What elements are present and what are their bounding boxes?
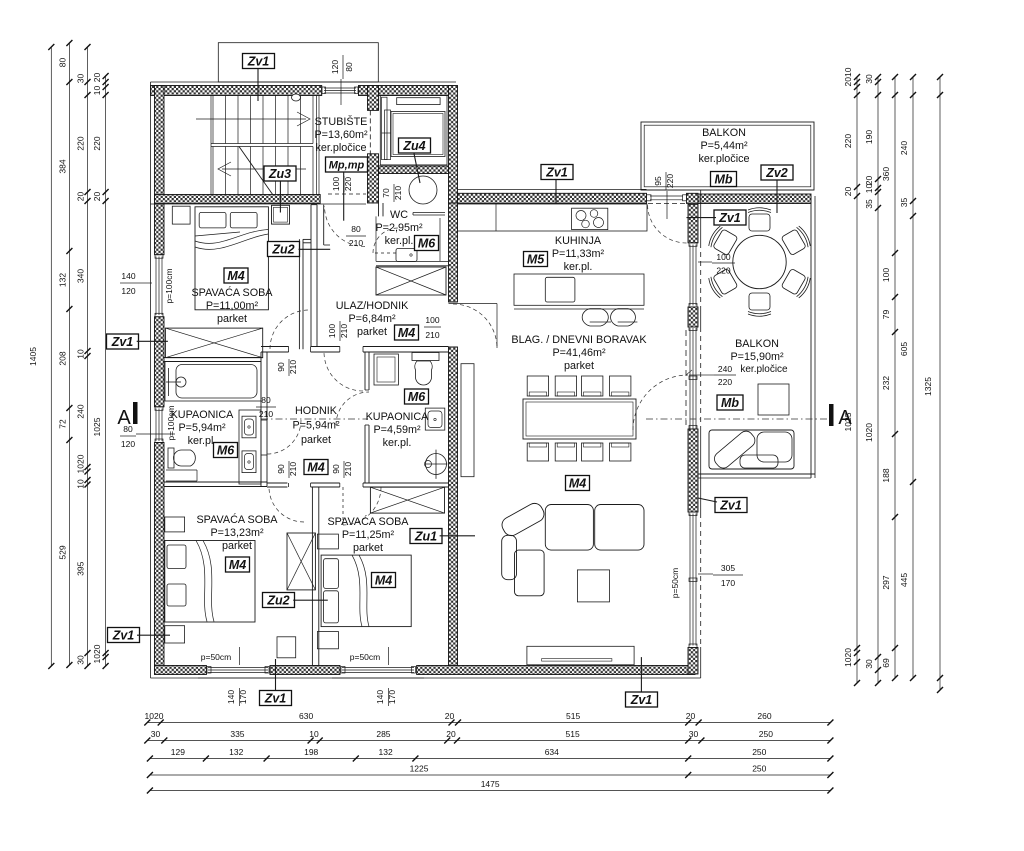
svg-text:P=15,90m²: P=15,90m² — [730, 351, 784, 363]
elevator bottom wall hatch — [379, 166, 449, 174]
door Zu2 bedroom1 swing arc — [325, 206, 366, 247]
label Zu4 — [399, 138, 431, 153]
svg-text:210: 210 — [425, 330, 439, 340]
svg-text:HODNIK: HODNIK — [295, 405, 338, 417]
svg-text:M4: M4 — [227, 269, 244, 283]
svg-text:10: 10 — [864, 184, 874, 194]
left wall hatch segment 1 — [155, 86, 165, 255]
blanket bedroom3 — [352, 555, 362, 626]
label M4 bedroom3 — [372, 573, 396, 588]
svg-text:Zv1: Zv1 — [545, 166, 568, 180]
svg-text:100: 100 — [425, 315, 439, 325]
label M4 bedroom2 — [226, 557, 250, 572]
balcony right outline — [810, 196, 812, 478]
WC bottom boundary — [376, 260, 449, 262]
svg-text:220: 220 — [76, 136, 86, 150]
svg-text:30: 30 — [689, 729, 699, 739]
balcony top-right outline — [641, 122, 814, 190]
svg-text:220: 220 — [843, 134, 853, 148]
svg-text:132: 132 — [57, 273, 67, 287]
nightstand bedroom2 bottom — [165, 626, 185, 643]
svg-text:90: 90 — [276, 362, 286, 372]
right wall hatch seg4 bottom corner — [688, 648, 698, 675]
label Mp,mp — [326, 157, 368, 172]
svg-text:M4: M4 — [569, 477, 586, 491]
svg-text:80: 80 — [261, 395, 271, 405]
label Zv1 balcony right — [715, 498, 747, 513]
svg-text:20: 20 — [686, 711, 696, 721]
hall wardrobe M4 crossed — [376, 267, 446, 295]
WC sink — [396, 249, 417, 262]
bedroom1 closet wall — [298, 239, 300, 349]
hodnik bottom wall — [267, 482, 287, 484]
toilet bathroom1 — [168, 448, 174, 468]
bathroom1 step/shelf — [166, 469, 197, 471]
dining chairs bottom row — [527, 443, 548, 461]
svg-text:Zu4: Zu4 — [402, 139, 425, 153]
sofa seat 2 — [595, 505, 644, 551]
svg-text:340: 340 — [76, 269, 86, 283]
WC inner boundary — [375, 216, 377, 261]
stair diagonal break line — [239, 147, 273, 196]
svg-text:120: 120 — [121, 286, 135, 296]
svg-text:20: 20 — [92, 73, 102, 83]
central vertical wall upper (kitchen left) — [449, 203, 458, 302]
svg-text:20: 20 — [76, 192, 86, 202]
svg-text:STUBIŠTE: STUBIŠTE — [315, 115, 368, 128]
label Zu1 bedroom3 — [410, 529, 442, 544]
svg-text:parket: parket — [357, 326, 387, 338]
hall/hodnik wall horizontal — [261, 346, 289, 348]
svg-text:170: 170 — [238, 690, 248, 704]
svg-text:1020: 1020 — [92, 644, 102, 663]
left wall window bedroom1 p=100 — [155, 254, 165, 256]
balcony sofa seat — [709, 430, 794, 469]
bottom wall outer face line — [151, 677, 701, 679]
stair arrow lower flight — [222, 168, 306, 170]
svg-text:KUPAONICA: KUPAONICA — [171, 409, 235, 421]
svg-text:20: 20 — [92, 192, 102, 202]
bed bedroom3 — [321, 555, 411, 627]
svg-text:P=5,94m²: P=5,94m² — [178, 422, 226, 434]
svg-text:30: 30 — [76, 74, 86, 84]
sideboard on wall — [461, 364, 474, 477]
svg-text:1020: 1020 — [145, 711, 164, 721]
svg-text:140: 140 — [226, 690, 236, 704]
svg-text:Zu2: Zu2 — [266, 594, 289, 608]
svg-text:ker.pl.: ker.pl. — [188, 435, 217, 447]
right wall hatch seg3 — [688, 429, 698, 512]
svg-text:220: 220 — [718, 377, 732, 387]
label Zv1 left lower — [108, 628, 140, 643]
stair mid landing double line — [211, 143, 313, 145]
washbasin 2 — [242, 451, 256, 473]
wall between stair block and WC/elevator column — [368, 86, 379, 111]
svg-text:210: 210 — [343, 462, 353, 476]
svg-text:250: 250 — [759, 729, 773, 739]
dim row 2 bottom — [147, 740, 830, 742]
svg-text:80: 80 — [351, 224, 361, 234]
sofa seat 1 — [545, 505, 593, 551]
stair risers upper flight — [212, 96, 214, 144]
svg-text:ker.pločice: ker.pločice — [740, 364, 788, 375]
bathroom1 bottom wall — [164, 481, 267, 483]
label Zv2 balcony — [761, 165, 793, 180]
svg-text:P=41,46m²: P=41,46m² — [552, 347, 606, 359]
svg-text:Zv1: Zv1 — [264, 692, 287, 706]
elevator door rails — [382, 97, 388, 159]
svg-text:P=13,23m²: P=13,23m² — [210, 527, 264, 539]
balcony door swing living — [633, 375, 688, 430]
svg-text:220: 220 — [92, 136, 102, 150]
svg-text:2010: 2010 — [843, 67, 853, 86]
svg-text:SPAVAĆA SOBA: SPAVAĆA SOBA — [191, 286, 273, 299]
svg-text:ker.pločice: ker.pločice — [698, 153, 749, 165]
svg-text:P=6,84m²: P=6,84m² — [348, 313, 396, 325]
svg-text:1020: 1020 — [76, 454, 86, 473]
svg-text:SPAVAĆA SOBA: SPAVAĆA SOBA — [327, 515, 409, 528]
label M6 bathroom2 — [405, 389, 429, 404]
svg-text:1475: 1475 — [481, 779, 500, 789]
svg-text:WC: WC — [390, 209, 408, 221]
label Zu2 bedroom2 — [263, 593, 295, 608]
kitchen island — [514, 274, 644, 305]
svg-text:Zv1: Zv1 — [111, 335, 134, 349]
svg-text:35: 35 — [864, 199, 874, 209]
opening to living room door swing — [453, 304, 497, 348]
svg-text:1225: 1225 — [410, 764, 429, 774]
svg-text:188: 188 — [881, 468, 891, 482]
balcony-right top wall hatch — [698, 194, 811, 204]
label Zu2 bedroom1 — [268, 242, 300, 257]
balcony door swing arc kitchen — [648, 204, 687, 243]
svg-text:parket: parket — [222, 540, 252, 552]
section mark A right — [829, 404, 834, 426]
cooktop — [572, 208, 608, 229]
dim col right 5 — [939, 77, 941, 690]
svg-text:140: 140 — [121, 271, 135, 281]
nightstand bedroom3 bottom — [317, 632, 338, 649]
label M4 living — [566, 476, 590, 491]
island sink — [545, 277, 575, 302]
wardrobe between bedrooms crossed — [287, 533, 315, 590]
dim col left 3 — [87, 47, 89, 666]
svg-text:KUHINJA: KUHINJA — [555, 235, 602, 247]
svg-text:p=50cm: p=50cm — [201, 652, 231, 662]
svg-text:P=11,00m²: P=11,00m² — [206, 300, 259, 312]
svg-text:Zv2: Zv2 — [765, 166, 788, 180]
door hodnik top-left swing — [324, 352, 363, 391]
svg-text:80: 80 — [123, 424, 133, 434]
svg-text:1325: 1325 — [923, 377, 933, 396]
svg-text:210: 210 — [339, 324, 349, 338]
bathtub — [165, 362, 261, 402]
pillows bedroom2 — [167, 545, 186, 569]
svg-text:250: 250 — [752, 764, 766, 774]
label M4 bedroom1 — [224, 268, 248, 283]
svg-text:120: 120 — [121, 439, 135, 449]
bathroom2 sink — [425, 408, 445, 430]
svg-text:p=50cm: p=50cm — [670, 568, 680, 598]
bottom wall hatch between windows — [270, 666, 340, 675]
balcony square table — [758, 384, 789, 415]
svg-text:100: 100 — [881, 268, 891, 282]
svg-text:35: 35 — [899, 198, 909, 208]
bedroom1 door swing from hodnik — [270, 310, 309, 349]
svg-text:210: 210 — [259, 409, 273, 419]
svg-text:529: 529 — [57, 545, 67, 559]
svg-text:515: 515 — [566, 729, 580, 739]
right wall window 305/170 p=50 — [689, 514, 691, 646]
svg-text:parket: parket — [564, 360, 594, 372]
svg-text:M4: M4 — [307, 461, 324, 475]
svg-text:BLAG. / DNEVNI BORAVAK: BLAG. / DNEVNI BORAVAK — [511, 334, 647, 346]
svg-text:190: 190 — [864, 130, 874, 144]
bathroom2 left wall — [364, 352, 366, 390]
bedroom2/bedroom3 divider wall — [311, 487, 313, 666]
bottom window bedroom3 p=50 — [339, 666, 341, 675]
label M5 kitchen — [524, 252, 548, 267]
label Zv1 kitchen — [541, 165, 573, 180]
door to bedroom3 swing — [343, 487, 381, 525]
svg-text:80: 80 — [57, 58, 67, 68]
svg-text:Zu3: Zu3 — [268, 167, 291, 181]
svg-text:P=2,95m²: P=2,95m² — [375, 222, 423, 234]
entry door Zu3 leaf parked — [272, 205, 290, 224]
svg-text:384: 384 — [57, 159, 67, 173]
elevator door opening dashed — [369, 110, 371, 153]
svg-text:parket: parket — [301, 434, 331, 446]
left wall hatch segment 2 — [155, 317, 165, 407]
svg-text:30: 30 — [76, 655, 86, 665]
wardrobe bedroom3 crossed — [370, 487, 444, 513]
TV cabinet — [527, 646, 634, 665]
svg-text:Zu2: Zu2 — [271, 243, 294, 257]
svg-text:ker.pl.: ker.pl. — [564, 261, 593, 273]
dim col right 4 — [912, 77, 914, 678]
svg-text:100: 100 — [331, 177, 341, 191]
svg-text:170: 170 — [387, 690, 397, 704]
label Zv1 right wall window — [714, 210, 746, 225]
round dining table balcony — [733, 235, 786, 288]
svg-text:305: 305 — [721, 563, 735, 573]
svg-text:Zv1: Zv1 — [630, 693, 653, 707]
svg-text:210: 210 — [288, 462, 298, 476]
dim col right 1 — [856, 77, 858, 683]
svg-text:210: 210 — [393, 186, 403, 200]
label M6 wc — [415, 236, 439, 251]
pillows bedroom3 — [324, 559, 339, 589]
balcony chairs around table — [748, 208, 771, 231]
svg-text:80: 80 — [344, 62, 354, 72]
left wall outer face line — [150, 82, 152, 678]
svg-text:M6: M6 — [217, 444, 235, 458]
svg-text:285: 285 — [376, 729, 390, 739]
top wall window 120/80 — [321, 86, 323, 96]
bathtub faucet — [168, 368, 170, 396]
svg-text:90: 90 — [331, 464, 341, 474]
svg-text:129: 129 — [171, 747, 185, 757]
sofa back left — [502, 535, 517, 579]
label M6 bathroom1 — [214, 443, 238, 458]
svg-text:120: 120 — [330, 60, 340, 74]
svg-text:208: 208 — [57, 351, 67, 365]
svg-text:90: 90 — [276, 464, 286, 474]
svg-text:297: 297 — [881, 575, 891, 589]
svg-text:220: 220 — [716, 266, 730, 276]
balcony sofa small cushion — [740, 455, 778, 468]
svg-text:220: 220 — [665, 174, 675, 188]
label Zv1 bottom left — [260, 691, 292, 706]
svg-text:445: 445 — [899, 573, 909, 587]
bathroom2 shower — [426, 454, 447, 475]
left wall hatch segment 3 — [155, 443, 165, 675]
svg-text:SPAVAĆA SOBA: SPAVAĆA SOBA — [196, 513, 278, 526]
svg-text:KUPAONICA: KUPAONICA — [366, 411, 430, 423]
wardrobe bedroom1 crossed — [165, 328, 262, 358]
svg-text:ker.pl.: ker.pl. — [385, 235, 414, 247]
svg-text:M4: M4 — [229, 558, 246, 572]
svg-text:360: 360 — [881, 167, 891, 181]
right wall window 100/220 — [688, 242, 698, 244]
stair right boundary — [316, 96, 318, 195]
bathroom1 right wall — [260, 352, 262, 486]
svg-text:240: 240 — [899, 141, 909, 155]
blanket bedroom2 — [196, 541, 207, 622]
nightstand bedroom1 left — [172, 206, 190, 224]
WC left wall stub — [378, 203, 380, 216]
svg-text:Mp,mp: Mp,mp — [329, 160, 365, 172]
svg-text:10: 10 — [76, 349, 86, 359]
svg-text:1405: 1405 — [28, 347, 38, 366]
elevator counterweight — [397, 98, 440, 105]
svg-text:605: 605 — [899, 342, 909, 356]
svg-text:P=5,94m²: P=5,94m² — [292, 420, 340, 432]
top wall hatch left of window — [151, 86, 322, 96]
door Zu2 bedroom1 leaf — [323, 205, 325, 245]
svg-text:p=100cm: p=100cm — [166, 405, 176, 440]
svg-text:232: 232 — [881, 376, 891, 390]
label M4 hall — [395, 325, 419, 340]
svg-text:M4: M4 — [398, 326, 415, 340]
svg-text:1025: 1025 — [92, 417, 102, 436]
svg-text:Zv1: Zv1 — [112, 629, 135, 643]
label Zu3 — [264, 166, 296, 181]
svg-text:30: 30 — [864, 659, 874, 669]
svg-text:ker.pl.: ker.pl. — [383, 437, 412, 449]
svg-text:BALKON: BALKON — [735, 338, 779, 350]
right exterior wall hatch seg1 — [688, 204, 698, 243]
bar stool 1 — [582, 309, 608, 326]
balcony sofa cushion rotated — [712, 428, 758, 471]
dining table — [523, 399, 636, 439]
svg-text:20: 20 — [843, 187, 853, 197]
dim row 1 bottom — [147, 722, 830, 724]
sofa chaise rotated — [499, 501, 547, 539]
kitchen top wall hatch right stub — [687, 193, 699, 203]
top wall outer face line — [151, 81, 457, 83]
bathroom1 sink counter — [239, 410, 261, 484]
stair up arrow upper flight — [196, 118, 306, 120]
nightstand bedroom3 top — [317, 534, 338, 549]
bedroom1 right wall — [310, 205, 312, 347]
sofa corner seat — [515, 550, 545, 596]
nightstand bedroom2 top — [165, 517, 185, 532]
svg-text:parket: parket — [353, 542, 383, 554]
opening hall-living 100/210 — [449, 346, 458, 348]
bottom wall hatch right section — [417, 666, 695, 675]
svg-text:parket: parket — [217, 313, 247, 325]
stair side boundary — [210, 96, 212, 196]
svg-text:M5: M5 — [527, 253, 545, 267]
kitchen top wall outer line — [458, 188, 647, 190]
label Zv1 bottom right — [626, 692, 658, 707]
WC shelf — [413, 212, 445, 214]
dining chairs top row — [527, 376, 548, 396]
svg-text:72: 72 — [57, 419, 67, 429]
dim row 3 bottom — [150, 758, 831, 760]
right wall hatch seg2 — [688, 307, 698, 327]
central vertical wall lower (living room left) — [449, 347, 458, 666]
balcony sofa cushion right — [757, 432, 792, 462]
svg-text:Zv1: Zv1 — [719, 499, 742, 513]
svg-text:132: 132 — [379, 747, 393, 757]
svg-text:260: 260 — [757, 711, 771, 721]
label M4 hodnik — [304, 460, 328, 475]
balcony door 240/220 in right wall — [685, 330, 687, 425]
svg-text:30: 30 — [864, 74, 874, 84]
svg-text:M4: M4 — [375, 574, 392, 588]
svg-text:220: 220 — [343, 177, 353, 191]
svg-text:20: 20 — [445, 711, 455, 721]
stair risers lower flight — [212, 147, 214, 196]
bed bedroom1 — [195, 207, 268, 310]
svg-text:P=5,44m²: P=5,44m² — [700, 140, 748, 152]
stool bedroom2 — [277, 637, 296, 658]
svg-text:10: 10 — [309, 729, 319, 739]
svg-text:140: 140 — [375, 690, 385, 704]
svg-text:395: 395 — [76, 561, 86, 575]
dim row 4 bottom — [150, 774, 831, 776]
svg-text:69: 69 — [881, 658, 891, 668]
washing machine — [374, 354, 398, 385]
svg-text:630: 630 — [299, 711, 313, 721]
svg-text:240: 240 — [76, 404, 86, 418]
svg-text:Zv1: Zv1 — [247, 55, 270, 69]
dim col right 3 — [894, 77, 896, 678]
svg-text:BALKON: BALKON — [702, 127, 746, 139]
bed bedroom2 — [165, 541, 255, 623]
svg-text:Zu1: Zu1 — [414, 530, 437, 544]
svg-text:210: 210 — [288, 360, 298, 374]
bathroom2 door swing — [336, 392, 369, 425]
door to bedroom2 swing — [269, 487, 304, 522]
svg-text:30: 30 — [151, 729, 161, 739]
pillows bedroom1 — [199, 212, 226, 228]
toilet bathroom2 — [412, 353, 439, 361]
svg-text:250: 250 — [752, 747, 766, 757]
svg-text:M6: M6 — [408, 390, 426, 404]
stairwell shaft outline above — [218, 43, 378, 82]
svg-text:132: 132 — [229, 747, 243, 757]
svg-text:210: 210 — [349, 238, 363, 248]
svg-text:ker.pločice: ker.pločice — [315, 142, 366, 154]
svg-text:p=100cm: p=100cm — [164, 268, 174, 303]
svg-text:Mb: Mb — [721, 396, 739, 410]
entry opening dashed — [328, 193, 366, 195]
svg-text:1020: 1020 — [843, 648, 853, 667]
WC boiler circle — [409, 176, 437, 204]
